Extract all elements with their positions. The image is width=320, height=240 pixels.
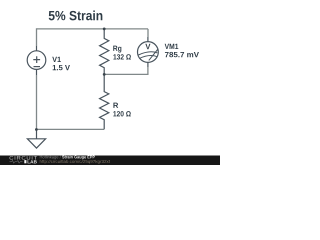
value 132 ohm [113, 54, 131, 59]
resistor R [100, 74, 109, 129]
footer logo mark before LAB [24, 160, 26, 163]
value 120 ohm [113, 111, 131, 116]
value 1.5 V [53, 65, 70, 70]
ground [27, 129, 45, 148]
wire bottom rail [37, 128, 105, 130]
footer logo LAB [28, 160, 37, 163]
resistor Rg [100, 29, 109, 74]
wire left column lower [36, 75, 38, 129]
label R [113, 103, 118, 108]
wire voltmeter top [147, 29, 149, 37]
footer bar [0, 156, 220, 166]
footer hotlink bold [62, 155, 95, 159]
node junction top rail / Rg [103, 28, 106, 31]
node junction ground [35, 128, 38, 131]
node junction Rg / R / VM1 [103, 73, 106, 76]
voltmeter VM1 [138, 37, 159, 67]
wire voltmeter bottom elbow [104, 67, 148, 74]
wire left column upper [36, 28, 38, 46]
voltage source V1 [27, 46, 46, 75]
footer logo CIRCUIT [10, 156, 38, 160]
label V1 [52, 57, 61, 62]
footer logo waveform [10, 160, 23, 163]
wire top rail [37, 28, 149, 30]
footer hotlink gray [40, 155, 61, 159]
voltmeter V letter [145, 44, 150, 50]
value 785.7 mV [165, 52, 199, 57]
label Rg [113, 46, 121, 53]
label VM1 [165, 44, 179, 49]
footer url [40, 160, 110, 164]
title text "5% Strain" [49, 10, 103, 20]
